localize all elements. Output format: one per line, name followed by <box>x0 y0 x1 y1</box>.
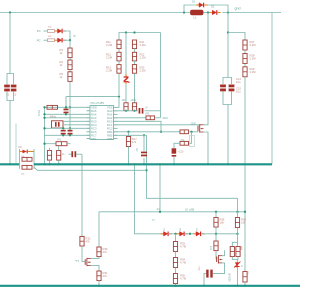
svg-text:PIC-PU85: PIC-PU85 <box>91 101 105 105</box>
resistor R3 <box>68 48 72 58</box>
wire x126 down to zener <box>125 33 127 75</box>
resistor R1 <box>48 30 55 33</box>
resistor R28 <box>243 54 247 64</box>
pin stub U1 left RB7 <box>87 138 91 140</box>
resistor R10b <box>22 165 32 169</box>
wire R14 to 2NC <box>155 117 161 119</box>
LED D3 <box>55 30 58 32</box>
wire bank bracket left <box>19 149 21 169</box>
wire LED row1 <box>44 30 48 32</box>
wire x216 from y211.8 <box>215 212 217 218</box>
wire x228 down to capacitor pair <box>227 33 229 78</box>
svg-text:RB7: RB7 <box>91 137 97 141</box>
zener diode D5 <box>125 74 127 77</box>
transistor Q4 mosfet <box>216 257 218 263</box>
wire x82 gate chain resistor <box>81 235 83 237</box>
wire <box>134 49 136 53</box>
wire x44.5 vertical to mid rail <box>44 107 46 164</box>
wire x208 from top rail down to Q1 drain <box>204 13 208 125</box>
node junction x44.5 y143.7 <box>43 143 45 145</box>
wire <box>175 268 177 274</box>
svg-text:PC: PC <box>37 29 41 33</box>
resistor R12 <box>117 52 121 61</box>
pin stub U1 right RB6 <box>114 138 118 140</box>
node junction top rail x=208 <box>207 11 209 13</box>
wire R17 to mid rail <box>128 147 130 165</box>
pin stub U1 left VDD <box>87 106 91 108</box>
pin stub U1 right RC2 <box>114 127 118 129</box>
wire <box>175 252 177 258</box>
node junction x126 y32.5 <box>125 31 127 33</box>
node junction top rail x=10 <box>9 11 11 13</box>
node junction x216 y211.8 <box>215 211 217 213</box>
node junction x160 mid rail <box>159 163 161 165</box>
svg-text:JP2: JP2 <box>145 113 150 116</box>
node junction x70 y40.2 <box>69 39 71 41</box>
wire x70 down to resistor stack <box>69 40 71 48</box>
wire MCU net y135.3 to bottom area <box>114 134 147 136</box>
node junction x10 mid rail <box>9 163 11 165</box>
node junction x216 y233.8 <box>215 233 217 235</box>
node junction x144 mid rail <box>143 163 145 165</box>
node junction x70 y128.3 <box>69 127 71 129</box>
capacitor C9 <box>141 152 147 154</box>
resistor R8 vertical <box>47 151 51 161</box>
pin stub U1 right RC1 <box>114 124 118 126</box>
node junction x44.5 y107.3 <box>43 106 45 108</box>
resistor R33 <box>173 242 177 252</box>
node junction x134.5 y32.5 <box>133 31 135 33</box>
capacitor C10 electrolytic <box>172 148 177 153</box>
diode D9 <box>193 233 196 235</box>
wire right branch from x228 down to resistor column <box>227 13 229 33</box>
wire gate RC branch <box>189 132 192 144</box>
resistor R34 <box>173 258 177 268</box>
pin stub U1 left RC3 <box>87 127 91 129</box>
wire <box>118 49 120 53</box>
capacitor C4 <box>61 130 66 132</box>
resistor R25 <box>132 103 136 111</box>
wire R17 tap from gate net <box>128 132 130 137</box>
wire diode row to R37 <box>215 234 217 241</box>
wire D10 to bottom rail <box>237 268 239 286</box>
node junction x161 gate net <box>160 131 162 133</box>
resistor R13 <box>117 65 121 74</box>
wire LED row2 to junction <box>64 39 71 41</box>
resistor R16 <box>180 141 189 145</box>
wire <box>69 58 71 60</box>
wire resistor column x175.5 <box>175 234 177 242</box>
pin stub U1 left RA4 <box>87 113 91 115</box>
wire LED row1 to corner <box>64 31 71 40</box>
wire row y117.8 to MCU <box>45 117 91 119</box>
wire <box>134 61 136 65</box>
wire x82 down across rail to bottom cluster <box>81 154 83 236</box>
wire to zener D10 <box>237 260 239 262</box>
capacitor C3 <box>64 109 69 111</box>
wire x70 down into MCU cluster <box>69 81 71 131</box>
svg-text:RB6: RB6 <box>107 137 113 141</box>
wire to bottom rail <box>175 284 177 286</box>
wire x146.5 down across rail to y198.3 <box>147 135 238 198</box>
node junction x190 y233.8 <box>189 233 191 235</box>
wire row y107.3 to MCU <box>45 106 91 108</box>
diode D8 <box>177 233 180 235</box>
diode D1 <box>196 4 199 6</box>
svg-text:2n: 2n <box>157 207 161 211</box>
node junction x237.5 y211.8 <box>236 211 238 213</box>
wire R41 to bottom rail <box>244 282 246 286</box>
node junction x99 bottom rail <box>98 285 100 287</box>
wire right edge vertical x272 <box>271 13 273 165</box>
wire R37 to Q4 gate <box>215 251 218 259</box>
wire mid rail main segment <box>34 163 272 165</box>
wire MCU gate net y131.8 <box>114 131 181 133</box>
pin stub U1 right RA0 <box>114 110 118 112</box>
wire <box>69 70 71 72</box>
crystal Q2 <box>52 121 64 128</box>
pin stub U1 left RC4 <box>87 124 91 126</box>
resistor R35 <box>173 274 177 284</box>
capacitor C6 <box>71 151 73 157</box>
resistor R29 <box>243 67 247 77</box>
node junction x174 mid rail <box>173 163 175 165</box>
wire <box>169 233 177 235</box>
resistor R7 <box>56 142 67 146</box>
resistor R10a <box>22 157 32 161</box>
node junction x228 y32.5 <box>227 31 229 33</box>
resistor R6 <box>47 105 58 109</box>
node junction x245 y211.8 <box>244 211 246 213</box>
wire R24 to net y110.8 <box>125 110 127 112</box>
node junction top rail x=184 <box>183 11 185 13</box>
wire x245 long vertical down to bottom cluster <box>244 77 246 272</box>
wire Q1 source to x208 to mid rail <box>204 132 208 164</box>
wire mid rail left segment <box>0 163 20 165</box>
pin stub U1 right RB5 <box>114 134 118 136</box>
wire x119 down to MCU pin <box>118 73 120 107</box>
wire C6 leads <box>69 153 72 155</box>
wire C10 to mid rail <box>173 157 175 165</box>
wire x134.5 from mid rail down to diode row <box>135 164 163 234</box>
svg-text:TXD1: TXD1 <box>38 110 41 117</box>
node junction x49.5 mid rail <box>48 163 50 165</box>
node junction x208 mid rail <box>207 163 209 165</box>
resistor R24 <box>124 103 128 111</box>
pin stub U1 right VSS <box>114 106 118 108</box>
wire x66 down to row y107.3 <box>65 97 67 108</box>
wire y211.8 horizontal <box>99 211 245 213</box>
wire C9 to mid rail <box>143 158 145 164</box>
wire row y143.7 <box>45 143 57 145</box>
capacitor C14 <box>220 85 226 88</box>
node junction x146.5 y170.3 <box>145 169 147 171</box>
node junction top rail x=228 <box>227 11 229 13</box>
diode D2 <box>209 12 212 14</box>
node junction x160 y211.8 <box>159 211 161 213</box>
node junction x128.5 y131.8 <box>127 131 129 133</box>
capacitor C5 <box>68 130 73 132</box>
node junction x134.5 mid rail <box>133 163 135 165</box>
node junction x128.5 mid rail <box>127 163 129 165</box>
wire <box>185 233 193 235</box>
resistor R31 <box>97 271 101 281</box>
wire R8 stubs <box>49 148 51 151</box>
pin stub U1 left RC6 <box>87 131 91 133</box>
pin stub U1 left RA3 <box>87 117 91 119</box>
IC U1 PIC16F685 box <box>90 106 114 140</box>
node junction x63.2 y128.3 <box>62 127 64 129</box>
node junction x44.5 y117.8 <box>43 117 45 119</box>
wire R36 to diode row <box>215 227 217 234</box>
node junction x44.5 y128.3 <box>43 127 45 129</box>
svg-text:(5V): (5V) <box>211 246 213 250</box>
wire Q3 source down through R31 <box>91 266 99 271</box>
svg-text:JP1: JP1 <box>57 139 62 142</box>
pin stub U1 right RC0 <box>114 120 118 122</box>
wire bank bottom jog to y172.6 line <box>34 167 147 170</box>
wire R30 to Q3 drain <box>91 257 99 259</box>
wire <box>118 61 120 65</box>
wire MCU net y117.8 through R14 <box>114 117 147 119</box>
capacitor C15 <box>229 85 235 88</box>
resistor R32 <box>80 236 84 246</box>
diode D7 <box>161 233 164 235</box>
svg-text:D1: D1 <box>192 0 196 4</box>
wire y96.6 above IC <box>66 96 120 98</box>
node junction x126 y110.8 <box>125 110 127 112</box>
svg-text:10 uSB: 10 uSB <box>185 207 194 211</box>
capacitor C2 <box>11 85 17 88</box>
node junction x175.5 bottom rail <box>174 285 176 287</box>
wire capacitor pair bracket bottom <box>223 92 232 105</box>
capacitor C8 <box>139 108 141 114</box>
node junction x237.5 y233.8 <box>236 233 238 235</box>
wire LED row2 <box>44 39 48 41</box>
transistor Q3 mosfet <box>84 259 86 265</box>
wire frame edge x16 <box>15 124 17 164</box>
node junction x63.2 y135.3 <box>62 134 64 136</box>
wire diode row right end <box>202 233 238 235</box>
node junction x245 bottom rail <box>244 285 246 287</box>
wire capacitor pair bracket top <box>223 78 232 85</box>
wire Q4 drain stub <box>222 250 224 256</box>
node junction x144 y135.3 <box>143 134 145 136</box>
wire x10 down to mid rail <box>9 101 11 165</box>
resistor R27 <box>243 40 247 50</box>
pin stub U1 left RA5 <box>87 110 91 112</box>
wire R31 to bottom rail <box>98 281 100 286</box>
wire C11 to bottom rail <box>204 274 206 286</box>
wire R15 to Q1 gate <box>189 131 199 133</box>
wire x237.5 to pair bracket <box>232 234 237 247</box>
wire bottom ground rail <box>0 285 300 287</box>
wire capacitor C1 C2 bracket bottom <box>7 92 14 101</box>
wire R16 to C10 <box>174 143 180 148</box>
node junction x70 y135.3 <box>69 134 71 136</box>
wire pair bracket bottom <box>232 257 238 260</box>
diode D10 with cross <box>236 261 238 268</box>
resistor R22 <box>132 52 136 61</box>
node junction x44.5 mid rail <box>43 163 45 165</box>
svg-text:2NC: 2NC <box>163 116 169 120</box>
node junction x228 mid rail <box>227 163 229 165</box>
resistor R15 <box>180 130 189 134</box>
wire top supply rail y=12.5 <box>0 12 191 14</box>
resistor R4 <box>68 60 72 70</box>
node junction x119 y96.6 <box>118 96 120 98</box>
svg-text:L1: L1 <box>194 16 198 20</box>
resistor R40 <box>236 247 240 257</box>
wire <box>244 64 246 67</box>
resistor R23 <box>132 65 136 74</box>
node junction x134.5 y110.8 <box>133 110 135 112</box>
wire x237.5 from y198.3 down <box>237 198 239 217</box>
resistor R41 on x245 <box>243 272 247 283</box>
resistor R17 <box>126 137 130 147</box>
resistor R21 <box>132 40 136 49</box>
wire x99 down from y211.8 <box>98 212 100 247</box>
resistor R14 <box>146 116 155 120</box>
capacitor C1 <box>4 85 10 88</box>
wire bypass branch over L1 <box>184 5 196 13</box>
inductor L1 <box>191 10 204 15</box>
svg-text:223E: 223E <box>131 99 137 102</box>
resistor R30 <box>97 247 101 257</box>
wire bank bracket right <box>33 149 35 169</box>
wire x160 from mid rail down to y211.8 <box>159 164 161 212</box>
wire MCU net y110.8 with bypass cap <box>114 110 138 112</box>
svg-text:PC: PC <box>37 38 41 42</box>
wire x228 from cap pair to mid rail <box>227 105 229 165</box>
wire Q4 source to cap C11 <box>213 263 225 274</box>
pin stub U1 left RC5 <box>87 120 91 122</box>
svg-text:12F: 12F <box>122 99 127 102</box>
wire zener to R24 <box>125 84 127 103</box>
wire x160.5 vertical ladder feed <box>160 33 162 118</box>
wire crystal to MCU y124.8 <box>63 124 90 126</box>
capacitor C11 <box>206 270 208 278</box>
svg-text:+C10: +C10 <box>178 151 184 154</box>
wire crystal to MCU y121.3 <box>63 120 90 122</box>
node junction x204 bottom rail <box>203 285 205 287</box>
wire MCU net y121.3 corner to gate net <box>114 121 162 132</box>
wire row y128.3 to MCU <box>45 127 91 129</box>
wire R32 to Q3 gate <box>82 246 85 261</box>
resistor R36 <box>214 218 218 228</box>
svg-text:4MHz: 4MHz <box>50 116 57 118</box>
wire ladder feed y32.5 <box>119 33 161 41</box>
pin stub U1 right RB4 <box>114 131 118 133</box>
pin stub U1 right RA2 <box>114 117 118 119</box>
wire MCU drain net y124.8 <box>114 124 201 126</box>
wire row y114.3 to MCU <box>45 113 91 115</box>
node junction x66 y107.3 <box>65 106 67 108</box>
node junction x58.7 mid rail <box>58 163 60 165</box>
resistor R37 <box>214 241 218 251</box>
node junction x70 y107.3 <box>69 106 71 108</box>
node junction x237.5 bottom rail <box>236 285 238 287</box>
resistor R2 <box>48 39 55 42</box>
resistor R38 <box>235 218 239 228</box>
wire x144 cap branch <box>143 135 145 151</box>
resistor R39 <box>230 247 234 257</box>
pin stub U1 left RC7 <box>87 134 91 136</box>
wire x134.5 down to R25 <box>134 73 136 103</box>
svg-text:gnd: gnd <box>235 7 241 11</box>
svg-text:2200: 2200 <box>191 123 197 126</box>
pin stub U1 right RA1 <box>114 113 118 115</box>
diode D6 <box>20 151 23 153</box>
transistor Q1 mosfet <box>197 126 199 132</box>
node junction x175.5 y233.8 <box>174 233 176 235</box>
resistor R11 <box>117 40 121 49</box>
wire left vertical x10 from top rail <box>9 13 11 74</box>
wire R7 right end down <box>67 143 71 145</box>
node junction x191.5 gate <box>190 131 192 133</box>
wire R25 to net y110.8 <box>134 110 136 112</box>
wire row y135.3 to MCU <box>45 134 91 136</box>
wire R9 stubs <box>58 146 60 151</box>
wire R38 to diode row <box>237 228 239 234</box>
node junction x44.5 y114.3 <box>43 113 45 115</box>
resistor R9 vertical <box>57 151 61 161</box>
resistor R5 <box>68 72 72 82</box>
wire capacitor C1 C2 bracket top <box>7 74 14 77</box>
svg-text:R40: R40 <box>242 245 244 250</box>
label T1 frame <box>190 136 195 147</box>
node junction x66 y114.3 <box>65 113 67 115</box>
LED D4 <box>55 39 58 41</box>
wire <box>244 50 246 54</box>
